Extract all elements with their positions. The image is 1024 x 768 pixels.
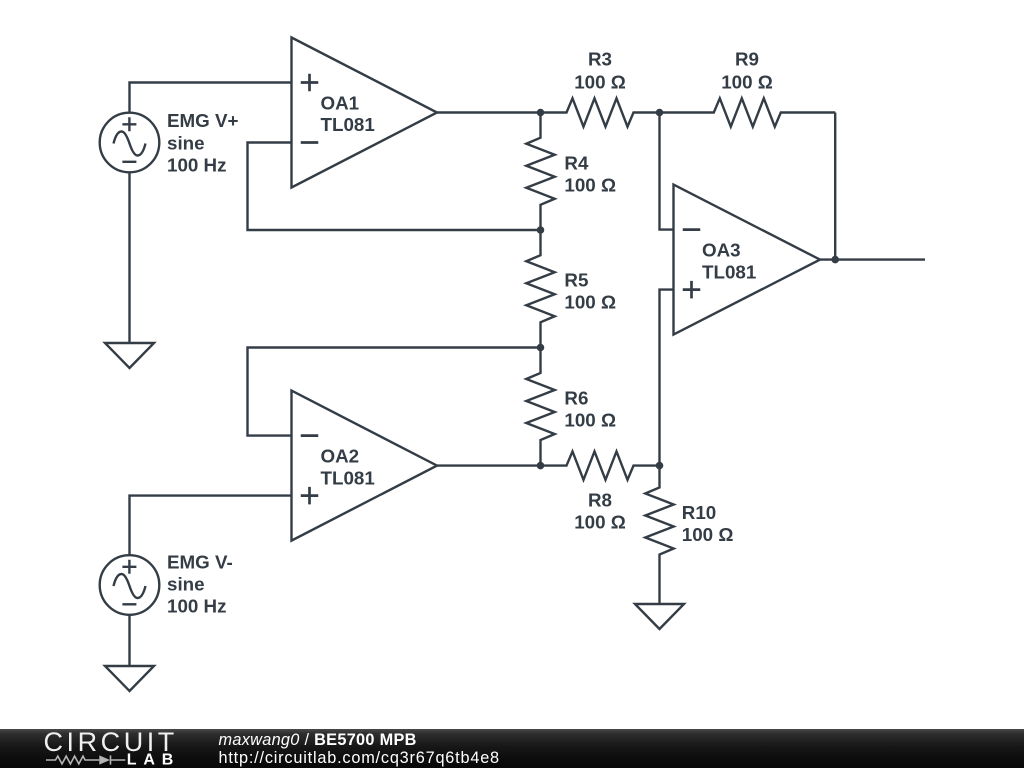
svg-text:100 Hz: 100 Hz — [167, 154, 227, 175]
wire OA3 output — [820, 258, 925, 260]
svg-text:sine: sine — [167, 574, 205, 595]
op-amp OA3 TL081 — [674, 185, 821, 335]
node C junction R3/R9/OA3inv — [656, 109, 664, 117]
voltage source V1 EMG V+ sine — [100, 113, 160, 173]
node junction R5/R6/OA2 feedback — [537, 344, 545, 352]
svg-text:R4: R4 — [564, 152, 589, 173]
wire OA1 feedback to node B — [248, 143, 541, 231]
node A junction OA1out/R3/R4 — [537, 109, 545, 117]
svg-text:maxwang0 / BE5700 MPB: maxwang0 / BE5700 MPB — [219, 731, 417, 749]
svg-text:100 Ω: 100 Ω — [564, 409, 616, 430]
svg-text:http://circuitlab.com/cq3r67q6: http://circuitlab.com/cq3r67q6tb4e8 — [219, 749, 500, 767]
ground under V2 — [105, 666, 154, 691]
svg-text:R10: R10 — [682, 502, 716, 523]
resistor R6 100ohm — [526, 348, 554, 466]
svg-text:R8: R8 — [588, 490, 612, 511]
CircuitLab logo resistor-diode squiggle — [46, 755, 125, 764]
node B junction R4/R5/OA1 feedback — [537, 226, 545, 234]
svg-text:R6: R6 — [564, 387, 588, 408]
wire OA1 output to node A — [437, 111, 541, 113]
voltage source V2 EMG V- sine — [100, 555, 160, 615]
svg-text:100 Ω: 100 Ω — [574, 512, 626, 533]
wire OA2 feedback to node D — [248, 348, 541, 436]
svg-text:EMG V+: EMG V+ — [167, 110, 239, 131]
svg-text:OA3: OA3 — [702, 240, 741, 261]
ground under V1 — [105, 343, 154, 368]
wire V1+ to OA1 noninverting input — [130, 83, 292, 114]
wire V2+ to OA2 noninverting input — [130, 496, 292, 556]
wire V2- to ground — [128, 615, 130, 667]
svg-text:TL081: TL081 — [321, 114, 375, 135]
wire OA3 noninverting input down to node E — [660, 290, 674, 466]
svg-text:100 Hz: 100 Hz — [167, 596, 227, 617]
svg-text:TL081: TL081 — [321, 467, 375, 488]
output node junction R9/OA3out — [831, 256, 839, 264]
resistor R10 100ohm — [645, 466, 673, 604]
svg-text:R5: R5 — [564, 270, 588, 291]
svg-text:TL081: TL081 — [702, 261, 756, 282]
op-amp OA2 TL081 — [292, 391, 438, 541]
node E junction R6/OA2out/R8 — [537, 462, 545, 470]
ground under R10 — [635, 604, 684, 629]
svg-text:100 Ω: 100 Ω — [682, 524, 734, 545]
resistor R5 100ohm — [526, 230, 554, 348]
resistor R9 100ohm — [660, 98, 836, 126]
svg-text:100 Ω: 100 Ω — [721, 71, 773, 92]
wire node C to OA3 inverting input — [660, 113, 674, 230]
footer title text — [219, 731, 500, 767]
svg-text:OA2: OA2 — [321, 446, 360, 467]
svg-text:R3: R3 — [588, 49, 612, 70]
svg-text:OA1: OA1 — [321, 93, 360, 114]
wire R9 right lead down to output node — [834, 113, 836, 260]
svg-text:EMG V-: EMG V- — [167, 552, 233, 573]
op-amp OA1 TL081 — [292, 38, 438, 188]
resistor R4 100ohm — [526, 113, 554, 231]
resistor R3 100ohm — [541, 98, 660, 126]
node F junction R8/R10/OA3+ — [656, 462, 664, 470]
svg-text:LAB: LAB — [127, 752, 180, 768]
wire V1- to ground — [128, 172, 130, 343]
svg-text:100 Ω: 100 Ω — [564, 292, 616, 313]
svg-text:R9: R9 — [735, 49, 759, 70]
wire OA2 output to node E — [437, 464, 541, 466]
svg-text:100 Ω: 100 Ω — [564, 174, 616, 195]
resistor R8 100ohm — [541, 451, 660, 479]
svg-text:100 Ω: 100 Ω — [574, 71, 626, 92]
svg-text:sine: sine — [167, 132, 205, 153]
